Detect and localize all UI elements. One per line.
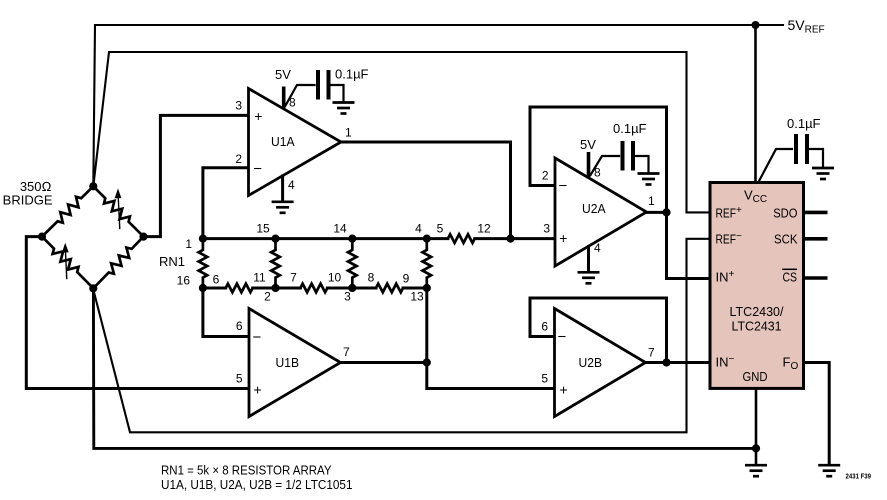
node U2B output	[662, 358, 670, 366]
ground F0	[818, 465, 840, 476]
node RN1 pin 13	[423, 284, 431, 292]
svg-text:1: 1	[345, 126, 352, 140]
svg-text:7: 7	[343, 345, 350, 359]
resistor bridge top-left	[42, 186, 93, 236]
wire U1A output to RN1 bus junction	[341, 142, 511, 239]
wire RN1 bottom bus segment 9-13	[403, 287, 427, 290]
wire U2B output to IN-	[646, 361, 711, 364]
resistor RN1 5-12	[448, 234, 475, 243]
svg-text:CS: CS	[783, 270, 798, 285]
svg-text:13: 13	[410, 290, 424, 304]
svg-text:2431 F39: 2431 F39	[846, 473, 872, 480]
svg-text:12: 12	[477, 222, 491, 236]
capacitor 0.1uF U2A bypass	[613, 121, 649, 173]
svg-text:−: −	[559, 178, 568, 195]
ground U1A bypass cap	[333, 103, 355, 114]
wire bridge right node to U1A + input pin 3	[144, 115, 249, 236]
U1A pin 4 stub	[283, 176, 295, 201]
ground U1A pin 4	[272, 202, 294, 213]
node RN1 pin 16	[199, 284, 207, 292]
node bridge left	[38, 233, 46, 241]
svg-text:−: −	[253, 329, 262, 346]
svg-text:4: 4	[415, 222, 422, 236]
node U1B output / RN1 pin 13 junction	[423, 358, 431, 366]
wire RN1 top bus to U2A pin 3	[475, 237, 555, 240]
svg-text:15: 15	[256, 222, 270, 236]
svg-text:0.1µF: 0.1µF	[613, 121, 647, 136]
svg-text:−: −	[253, 161, 262, 178]
node 5VREF junction	[752, 21, 760, 29]
node bridge bottom	[89, 284, 97, 292]
svg-text:RN1 = 5k × 8 RESISTOR ARRAY: RN1 = 5k × 8 RESISTOR ARRAY	[161, 463, 332, 478]
U2A pin 4 stub	[589, 241, 602, 271]
resistor bridge bottom-left (variable)	[42, 237, 93, 289]
svg-text:−: −	[558, 329, 567, 346]
svg-text:SCK: SCK	[774, 231, 798, 246]
label U2A pin 3	[543, 222, 550, 236]
svg-text:5VREF: 5VREF	[788, 17, 825, 36]
op-amp U2B	[555, 309, 646, 417]
label 350 ohm BRIDGE	[3, 179, 53, 208]
ground Vcc bypass cap	[812, 168, 834, 179]
svg-text:9: 9	[403, 272, 410, 286]
svg-text:4: 4	[594, 241, 601, 255]
node GND junction	[752, 444, 760, 452]
wire U2A pin 8 to bypass cap	[591, 156, 620, 175]
U2A pin 8 5V stub	[580, 137, 601, 180]
label RN1 pin numbers bottom bus	[177, 271, 424, 304]
wire U1A pin 2 to RN1 pin 1	[203, 168, 249, 239]
label 5VREF	[788, 17, 825, 36]
svg-text:LTC2431: LTC2431	[732, 319, 782, 334]
wire REF+ sense from bridge top node	[93, 52, 710, 212]
svg-text:1: 1	[185, 237, 192, 251]
node RN1 pin 4	[423, 235, 431, 243]
node RN1 pin 15	[271, 235, 279, 243]
svg-text:6: 6	[541, 320, 548, 334]
svg-text:0.1µF: 0.1µF	[335, 67, 369, 82]
svg-text:16: 16	[177, 274, 191, 288]
svg-text:3: 3	[235, 99, 242, 113]
wire RN1 pin 16 to U1B pin 6	[203, 288, 249, 337]
svg-text:2: 2	[235, 152, 242, 166]
ground U2A bypass cap	[638, 174, 660, 185]
svg-text:U2A: U2A	[582, 201, 606, 216]
label U1A pin 3	[235, 99, 242, 113]
label U1B pin 6	[236, 319, 243, 333]
wire U1A pin 8 to bypass cap	[286, 85, 315, 106]
node RN1 bus / U1A output junction	[506, 235, 514, 243]
op-amp U1B	[249, 309, 341, 417]
resistor RN1 15-2	[271, 239, 280, 288]
svg-text:5V: 5V	[580, 137, 596, 152]
svg-text:+: +	[254, 108, 262, 124]
svg-text:10: 10	[328, 271, 342, 285]
wire U2A feedback pin 1 to pin 2	[530, 107, 667, 212]
node bridge top	[89, 182, 97, 190]
svg-text:U1A: U1A	[271, 134, 295, 149]
svg-text:5: 5	[437, 222, 444, 236]
svg-text:8: 8	[368, 271, 375, 285]
wire RN1 bottom bus segment 11-7	[253, 287, 301, 290]
resistor bridge bottom-right	[93, 237, 143, 289]
svg-text:BRIDGE: BRIDGE	[3, 193, 53, 208]
label notes	[161, 463, 353, 493]
label U2A pin 1	[648, 194, 655, 208]
pin stub CS	[804, 276, 828, 280]
label U2B pin 6	[541, 320, 548, 334]
wire Vcc pin to bypass cap	[759, 149, 793, 182]
U1A pin 8 5V stub	[275, 67, 296, 110]
svg-text:3: 3	[543, 222, 550, 236]
svg-text:14: 14	[333, 222, 347, 236]
svg-text:GND: GND	[743, 369, 768, 384]
svg-text:2: 2	[264, 290, 271, 304]
svg-text:6: 6	[236, 319, 243, 333]
svg-text:5V: 5V	[275, 67, 291, 82]
svg-text:6: 6	[213, 273, 220, 287]
label U2B pin 5	[541, 372, 548, 386]
svg-text:U1B: U1B	[276, 355, 300, 370]
svg-text:RN1: RN1	[159, 254, 185, 269]
label U1B pin 5	[236, 372, 243, 386]
op-amp U2A	[555, 158, 647, 266]
ground chip GND	[745, 465, 767, 476]
wire ground return from bridge bottom node	[93, 289, 756, 448]
wire REF- sense to bridge bottom node	[93, 239, 710, 432]
node RN1 pin 2	[271, 284, 279, 292]
node RN1 pin 1	[199, 235, 207, 243]
resistor RN1 1-16	[199, 239, 208, 288]
capacitor 0.1uF Vcc bypass	[787, 116, 823, 167]
node bridge right	[139, 233, 147, 241]
svg-text:U1A, U1B, U2A, U2B = 1/2 LTC10: U1A, U1B, U2A, U2B = 1/2 LTC1051	[161, 477, 353, 492]
svg-text:SDO: SDO	[773, 205, 797, 220]
wire RN1 bottom bus segment 16-6	[203, 287, 226, 290]
svg-text:3: 3	[344, 290, 351, 304]
svg-text:U2B: U2B	[579, 355, 603, 370]
wire 5VREF top rail from bridge top node	[93, 25, 783, 186]
label U2B pin 7	[648, 346, 655, 360]
pin stub SDO	[804, 211, 828, 215]
capacitor 0.1uF U1A bypass	[318, 67, 369, 102]
svg-text:7: 7	[648, 346, 655, 360]
resistor RN1 7-10	[300, 284, 327, 293]
node RN1 pin 14	[348, 235, 356, 243]
svg-text:+: +	[560, 381, 568, 397]
svg-text:7: 7	[290, 271, 297, 285]
label RN1	[159, 254, 185, 269]
label U2A pin 2	[542, 169, 549, 183]
pin stub SCK	[804, 237, 828, 241]
resistor RN1 14-3	[348, 239, 357, 288]
node RN1 pin 3	[348, 284, 356, 292]
resistor RN1 4-13	[423, 239, 432, 288]
svg-text:11: 11	[253, 271, 266, 285]
wire Vcc from 5VREF rail to chip	[754, 25, 757, 183]
resistor RN1 6-11	[226, 284, 253, 293]
label U1A pin 1	[345, 126, 352, 140]
svg-text:+: +	[559, 230, 567, 246]
node U2A output	[662, 208, 670, 216]
wire bridge left node to U1B + input	[26, 237, 249, 389]
resistor bridge top-right (variable)	[93, 186, 143, 236]
label RN1 pin numbers top bus	[185, 222, 491, 252]
svg-text:0.1µF: 0.1µF	[787, 116, 821, 131]
label U1B pin 7	[343, 345, 350, 359]
wire U2A output to IN+	[647, 212, 711, 278]
svg-text:2: 2	[542, 169, 549, 183]
ground U2A pin 4	[578, 272, 600, 283]
svg-text:4: 4	[288, 178, 295, 192]
wire RN1 bottom bus segment 10-8	[327, 287, 376, 290]
wire RN1 top bus	[203, 237, 448, 240]
svg-text:5: 5	[541, 372, 548, 386]
wire F0 to ground	[804, 363, 830, 464]
label U1A pin 2	[235, 152, 242, 166]
wire U1B output to RN1 pin 13 and U2B pin 5	[341, 288, 555, 389]
wire U2B feedback pin 7 to pin 6	[530, 298, 667, 363]
wire chip GND pin to ground	[755, 388, 758, 464]
resistor RN1 8-9	[376, 284, 403, 293]
svg-text:LTC2430/: LTC2430/	[730, 304, 784, 319]
IC LTC2430/LTC2431	[710, 183, 804, 389]
svg-text:1: 1	[648, 194, 655, 208]
svg-text:+: +	[254, 381, 262, 397]
op-amp U1A	[249, 89, 342, 196]
svg-text:5: 5	[236, 372, 243, 386]
label figure number 2431 F39	[846, 473, 872, 480]
